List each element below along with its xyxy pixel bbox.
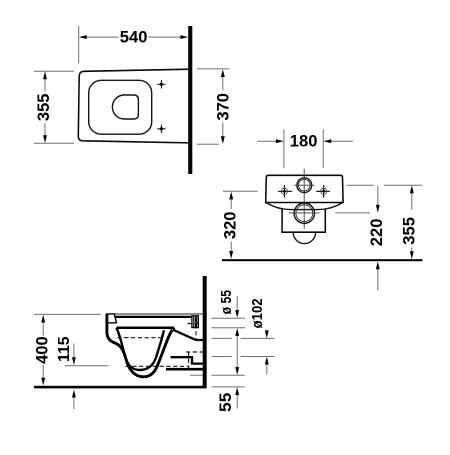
- right side ext lines (pipe levels): [212, 317, 246, 319]
- svg-text:355: 355: [35, 94, 53, 122]
- floor line (rear view): [222, 259, 423, 261]
- svg-text:540: 540: [120, 29, 148, 47]
- svg-text:55: 55: [217, 393, 235, 412]
- fixing mark lower: [157, 125, 165, 133]
- dim ø55: [236, 296, 238, 312]
- fixing mark right: [317, 185, 330, 198]
- svg-text:ø 55: ø 55: [218, 290, 235, 314]
- upper hole circles: [297, 178, 312, 193]
- svg-text:115: 115: [56, 336, 73, 362]
- centerline dashes near marks: [289, 190, 292, 192]
- outlet pipe top: [171, 357, 205, 363]
- svg-text:370: 370: [214, 93, 232, 121]
- svg-text:400: 400: [33, 336, 51, 364]
- seat front lip: [107, 314, 116, 323]
- wall section bar: [188, 26, 192, 174]
- inner bowl: [116, 328, 163, 370]
- flush center dashed cross: [195, 318, 197, 342]
- dim 355 (left): [34, 70, 74, 72]
- dim 55 (bottom): [236, 394, 238, 409]
- hidden foot bottom dashed: [126, 365, 189, 367]
- dim 540: [78, 26, 80, 64]
- fixing mark left: [278, 185, 291, 198]
- svg-text:220: 220: [368, 219, 386, 247]
- dim ø102: [266, 330, 268, 332]
- svg-text:180: 180: [290, 133, 318, 151]
- drain semicircle: [293, 232, 315, 243]
- floor bar: [34, 386, 207, 389]
- dim 115: [65, 365, 108, 367]
- centerline vertical: [303, 169, 305, 229]
- dim 400: [34, 313, 101, 315]
- fixing mark upper: [157, 80, 165, 88]
- dim 355 (rear): [347, 184, 374, 186]
- drain center dashed: [188, 352, 190, 372]
- ceramic rim top: [116, 316, 199, 318]
- outlet pipe bottom: [166, 368, 205, 371]
- outer profile front+bottom: [107, 314, 172, 377]
- svg-text:355: 355: [401, 217, 419, 245]
- dim 370 (right): [197, 68, 230, 70]
- water line dashed: [117, 337, 165, 339]
- wall bar: [203, 276, 207, 387]
- tank body: [266, 175, 343, 202]
- lower hole circles: [294, 203, 314, 223]
- lower bowl / neck: [281, 209, 326, 232]
- dim 220: [335, 212, 370, 214]
- bowl opening: [112, 95, 138, 119]
- toilet outline (plan): [78, 69, 190, 143]
- seat top line: [107, 313, 204, 315]
- dim 180: [283, 129, 285, 168]
- shoulder curve: [266, 203, 343, 210]
- svg-text:320: 320: [221, 212, 239, 240]
- flush connection box: [192, 316, 198, 328]
- dim 320: [223, 190, 258, 192]
- back shelf slant: [174, 328, 205, 340]
- svg-text:ø102: ø102: [249, 298, 266, 328]
- rim bottom: [116, 326, 174, 329]
- seat rim: [89, 80, 152, 134]
